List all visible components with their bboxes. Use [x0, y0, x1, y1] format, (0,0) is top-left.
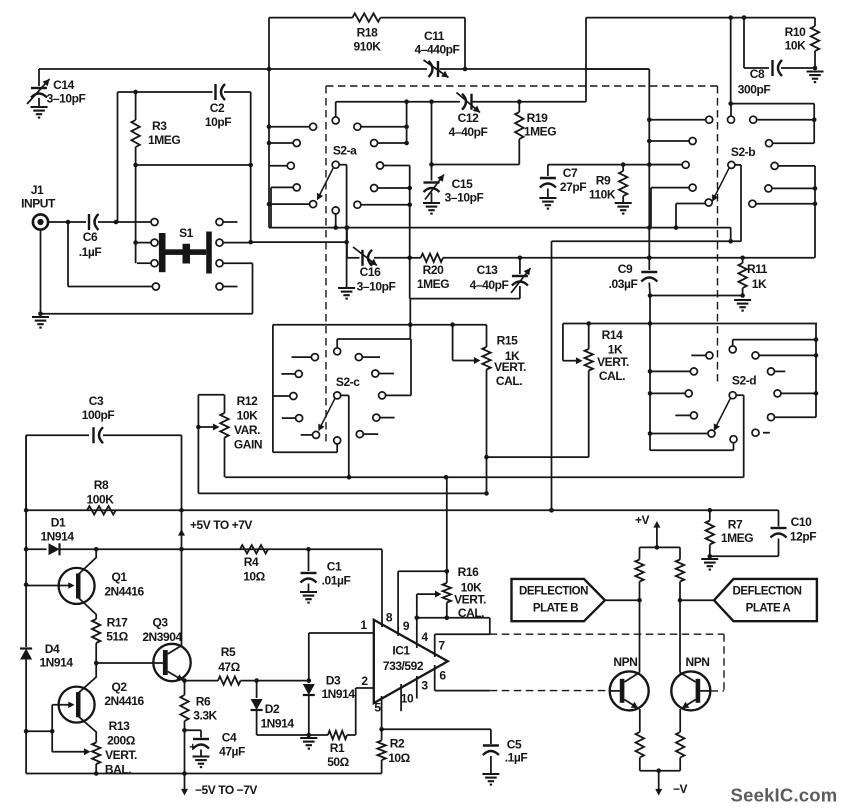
resistor R4 [240, 545, 268, 553]
svg-text:J1: J1 [31, 183, 44, 197]
S2-c left contacts [311, 354, 318, 361]
svg-text:R18: R18 [357, 26, 378, 40]
svg-text:R14: R14 [602, 328, 623, 342]
svg-text:S2-d: S2-d [732, 374, 756, 388]
wire y=457.1 R15 to R14 [487, 456, 589, 458]
wire S2-c left vertical [272, 325, 274, 453]
wire pin7 output solid [435, 633, 490, 635]
S2-b left contacts [706, 116, 713, 123]
-V arrow [658, 771, 660, 791]
svg-text:C16: C16 [360, 265, 381, 279]
svg-text:PLATE B: PLATE B [533, 603, 578, 615]
S2-a pole wire to C16 node [339, 164, 346, 166]
svg-text:R13: R13 [109, 719, 130, 733]
capacitor C5 with ground [490, 729, 492, 744]
capacitor C13 (trimmer) in loop [518, 255, 523, 260]
svg-text:1N914: 1N914 [40, 530, 74, 544]
resistor R7 with ground [709, 510, 711, 520]
wire x=586 vertical [585, 18, 587, 102]
S2-a right contacts [354, 123, 361, 130]
S2-a right contact wires lower [384, 165, 410, 167]
collector resistor right [679, 547, 681, 559]
svg-text:C5: C5 [507, 738, 522, 752]
transistor NPN right [671, 671, 710, 710]
wire box right vertical x=465 [464, 18, 466, 69]
S2-c right contact wires [362, 356, 380, 358]
wire Q3 emitter node [184, 680, 185, 682]
svg-text:Q1: Q1 [111, 570, 127, 584]
resistor R2 [381, 729, 383, 740]
svg-text:300pF: 300pF [738, 83, 771, 97]
wire S2-d right vertical x=816 [815, 324, 817, 418]
wire C3 loop [26, 434, 89, 436]
svg-text:3–10pF: 3–10pF [445, 191, 484, 205]
svg-text:S2-c: S2-c [336, 375, 360, 389]
wire y=227.6 S2-a common bus [269, 227, 731, 229]
wire J1 to S1 row1 y=222 [48, 221, 86, 223]
svg-text:1N914: 1N914 [260, 717, 294, 731]
capacitor C14 (trimmer) with ground [38, 69, 40, 86]
resistor R17 [92, 619, 100, 643]
svg-text:1K: 1K [752, 277, 767, 291]
ground at R10/C8 [813, 66, 818, 71]
wire left NPN collector [639, 600, 641, 672]
pin 5 [381, 696, 383, 729]
svg-text:R2: R2 [390, 737, 405, 751]
svg-text:S2-a: S2-a [333, 144, 357, 158]
svg-text:+5V TO +7V: +5V TO +7V [190, 518, 252, 532]
wire NPN collector resistors top [640, 546, 681, 548]
svg-text:C13: C13 [477, 263, 498, 277]
S2-a left contacts [310, 123, 317, 130]
svg-text:2N4416: 2N4416 [104, 585, 144, 599]
S2-c left contact wires [292, 356, 312, 358]
wire J1 ground chain [40, 230, 42, 314]
resistor R10 [814, 18, 816, 26]
svg-text:1MEG: 1MEG [524, 125, 556, 139]
svg-text:200Ω: 200Ω [107, 734, 136, 748]
resistor R8 on bus3 [87, 506, 116, 514]
capacitor C12 (trimmer) [470, 94, 472, 110]
wire top horizontal y=69 [39, 68, 427, 70]
wire pin 1 [309, 632, 374, 634]
wire pin6 output solid [435, 690, 490, 692]
wire R20/C13 loop bottom [409, 258, 411, 299]
svg-text:C10: C10 [791, 515, 812, 529]
pin 3 stub [416, 676, 418, 699]
wire Q2 gate link [51, 705, 53, 752]
svg-text:.03µF: .03µF [609, 277, 638, 291]
svg-text:47µF: 47µF [219, 745, 245, 759]
svg-text:1MEG: 1MEG [721, 531, 753, 545]
svg-text:IC1: IC1 [392, 644, 410, 658]
svg-text:.01µF: .01µF [322, 574, 351, 588]
capacitor C8 [771, 60, 773, 76]
wire C8 row y=68 [744, 67, 769, 69]
svg-text:S1: S1 [179, 226, 194, 240]
wire S2-d top-center y=339.6 [733, 339, 816, 341]
+5V feed arrow [178, 529, 185, 536]
svg-text:47Ω: 47Ω [218, 660, 240, 674]
wire y=17.6 right section [586, 17, 815, 19]
wire box left vertical x=269 [268, 18, 270, 228]
transistor Q1 2N4416 [59, 568, 95, 604]
svg-text:NPN: NPN [686, 655, 710, 669]
svg-text:R4: R4 [244, 555, 259, 569]
svg-text:S2-b: S2-b [731, 145, 755, 159]
S2-d top-center contact [729, 346, 736, 353]
svg-text:1MEG: 1MEG [417, 277, 449, 291]
S2-a pole arrow [318, 168, 333, 198]
svg-text:2N3904: 2N3904 [142, 630, 182, 644]
svg-text:10K: 10K [237, 409, 258, 423]
wire y=663 to Q3 base [96, 662, 153, 664]
svg-text:R3: R3 [152, 119, 167, 133]
svg-text:C4: C4 [222, 731, 237, 745]
diode D4 1N914 [20, 649, 32, 660]
resistor R3 [135, 92, 137, 120]
wire R14/S2-d top y=323.5 [563, 323, 817, 325]
wire bottom rail y=773.5 (-5V) [26, 773, 382, 775]
wire S1 row2 bus y=242.1 [251, 241, 347, 243]
dashed gang line left x=326 [325, 86, 327, 443]
svg-text:2: 2 [361, 674, 368, 688]
wire y=92 R3/C2 top [118, 91, 213, 93]
svg-text:3.3K: 3.3K [193, 709, 217, 723]
svg-text:10pF: 10pF [205, 115, 231, 129]
wire S2-d bottom y=450.3 [650, 449, 734, 451]
svg-text:DEFLECTION: DEFLECTION [519, 586, 588, 598]
svg-text:PLATE A: PLATE A [746, 603, 791, 615]
svg-text:.1µF: .1µF [79, 245, 102, 259]
wire C7/R9 y=164.6 [548, 164, 682, 166]
wire C15 vertical x=431.5 [429, 99, 434, 104]
wire x=730.7 jog [730, 228, 732, 242]
svg-text:10: 10 [401, 692, 414, 706]
wire bus1 y=477.2 [225, 476, 744, 478]
S2-b right contacts upper [750, 116, 757, 123]
pin 7 [434, 634, 436, 657]
S2-a right contact wires upper [361, 126, 407, 128]
svg-text:6: 6 [439, 669, 446, 683]
svg-text:1N914: 1N914 [321, 687, 355, 701]
resistor R5 [218, 676, 241, 684]
wire y=241.3 S2-b pole bus [552, 240, 742, 242]
svg-text:R8: R8 [94, 478, 109, 492]
wire x=347 riser [346, 228, 348, 258]
svg-text:2N4416: 2N4416 [104, 694, 144, 708]
jack J1 INPUT [33, 214, 48, 229]
wire x=68 to S1 row4 [67, 222, 69, 287]
wire plate A to node [680, 599, 714, 601]
-5V arrow [184, 774, 186, 792]
dashed gang line right x=717.5 [717, 86, 719, 386]
wire left vertical x=26.1 [25, 435, 27, 647]
svg-text:+: + [189, 740, 196, 754]
svg-text:910K: 910K [354, 40, 382, 54]
pin 4 [416, 618, 418, 648]
capacitor C7 with ground [547, 165, 549, 176]
deflection plate A callout [714, 579, 817, 621]
svg-text:5: 5 [374, 701, 381, 715]
svg-text:R12: R12 [237, 394, 258, 408]
svg-text:VAR.: VAR. [234, 423, 260, 437]
dashed gang line top y=86 [326, 85, 718, 87]
svg-text:1: 1 [360, 618, 367, 632]
wire bus3 y=510.3 (+V) [26, 509, 778, 511]
+V supply arrow [656, 525, 658, 548]
op-amp IC1 733/592 triangle [374, 620, 448, 703]
collector resistor left [639, 547, 641, 559]
svg-text:C8: C8 [750, 67, 765, 81]
svg-text:9: 9 [403, 619, 410, 633]
svg-text:GAIN: GAIN [234, 438, 262, 452]
S2-b right contacts lower [771, 162, 778, 169]
svg-text:C2: C2 [210, 101, 225, 115]
wire S2-c center riser x=411 [409, 325, 411, 339]
resistor R1 [309, 734, 328, 736]
S2-a bottom-center contact [332, 207, 339, 214]
svg-text:R16: R16 [458, 565, 479, 579]
transistor NPN left [610, 671, 649, 710]
svg-text:1N914: 1N914 [39, 656, 73, 670]
svg-text:R7: R7 [728, 518, 743, 532]
potentiometer R13 VERT BAL [52, 751, 85, 753]
wire S2-b left vertical x=649.3 [648, 69, 650, 258]
potentiometer R16 VERT CAL [446, 477, 448, 583]
wire right NPN collector [679, 600, 681, 672]
svg-text:−V: −V [673, 782, 688, 796]
svg-text:DEFLECTION: DEFLECTION [733, 586, 802, 598]
svg-text:CAL.: CAL. [599, 369, 625, 383]
resistor R18 [353, 13, 381, 21]
S2-b top-center contact [728, 116, 735, 123]
svg-text:NPN: NPN [613, 655, 637, 669]
svg-text:D4: D4 [45, 642, 60, 656]
wire y=103.6 [731, 103, 815, 105]
dashed pin7 line to NPN box [490, 633, 724, 635]
capacitor C15 (trimmer) with ground [424, 181, 440, 183]
S2-c pole contact and arrow [334, 392, 341, 399]
svg-text:100pF: 100pF [82, 408, 115, 422]
dashed NPN box right [723, 634, 725, 691]
emitter resistor right [676, 732, 684, 758]
svg-text:R11: R11 [747, 262, 768, 276]
svg-text:733/592: 733/592 [383, 659, 424, 673]
S2-d right contact wires [759, 354, 816, 356]
diode D1 1N914 [49, 543, 60, 555]
capacitor C2 [214, 84, 216, 100]
svg-text:4–40pF: 4–40pF [470, 278, 509, 292]
svg-text:R17: R17 [107, 616, 128, 630]
wire x=731 from top [730, 18, 732, 104]
svg-text:.1µF: .1µF [505, 751, 528, 765]
S2-d pole wire down to bus1 [736, 394, 744, 396]
svg-text:27pF: 27pF [560, 180, 586, 194]
svg-text:R15: R15 [497, 334, 518, 348]
S2-a top-center contact [332, 117, 339, 124]
svg-text:3–10pF: 3–10pF [357, 280, 396, 294]
S2-c right contacts [355, 354, 362, 361]
svg-text:R5: R5 [221, 645, 236, 659]
wire S1 row2 left stub [136, 242, 151, 244]
svg-text:BAL.: BAL. [105, 763, 131, 777]
svg-text:C11: C11 [424, 29, 445, 43]
pin 10 stub [400, 684, 402, 711]
S2-d left contacts [706, 352, 713, 359]
svg-text:R1: R1 [330, 741, 345, 755]
svg-text:D3: D3 [326, 674, 341, 688]
svg-text:VERT.: VERT. [105, 748, 137, 762]
wire y=164.5 C15/R19 [432, 164, 520, 166]
wire x=410.3 link from attenuator [409, 299, 411, 325]
wire S1 row2 right to x=250.7 [223, 242, 251, 244]
potentiometer R14 VERT CAL [562, 324, 564, 361]
S2-d pole contact and arrow [729, 392, 736, 399]
S2-b left contact wires [649, 119, 705, 121]
svg-text:Q3: Q3 [152, 616, 168, 630]
svg-text:D1: D1 [51, 516, 66, 530]
wire S2-b pole drop x=551.5 [551, 241, 553, 510]
wire S2-c top y=324.7 [273, 324, 487, 326]
svg-text:VERT.: VERT. [597, 355, 629, 369]
svg-text:51Ω: 51Ω [106, 630, 128, 644]
svg-text:110K: 110K [589, 188, 616, 202]
S2-a pole contact [332, 161, 339, 168]
resistor R19 [517, 99, 522, 104]
svg-text:3–10pF: 3–10pF [47, 92, 86, 106]
S2-c bottom-center contact [334, 437, 341, 444]
potentiometer R15 VERT CAL [452, 325, 454, 361]
ground at J1 [32, 317, 49, 328]
wire pin 2 [356, 687, 374, 689]
svg-text:SeekIC.com: SeekIC.com [731, 785, 838, 806]
emitter resistor left [636, 732, 644, 758]
wire S1 row4 right stub [223, 286, 238, 288]
svg-text:C9: C9 [618, 262, 633, 276]
capacitor C3 [92, 427, 94, 443]
svg-text:C7: C7 [563, 166, 578, 180]
S1 right contacts [216, 219, 223, 226]
wire S2-d left vertical x=650 [649, 296, 651, 451]
capacitor C16 (trimmer) with ground [347, 257, 360, 259]
transistor Q3 2N3904 [153, 644, 190, 681]
wire y=165 R3 bottom [136, 164, 251, 166]
svg-text:Q2: Q2 [111, 680, 127, 694]
wire S1 row3 left stub [137, 262, 151, 264]
svg-text:10Ω: 10Ω [243, 570, 265, 584]
wire vertical x=117.5 (input to C2/R3 loop) [117, 92, 119, 222]
svg-text:12pF: 12pF [790, 530, 816, 544]
wire R16 bottom to pin7 wire [417, 617, 490, 619]
svg-text:10K: 10K [785, 39, 806, 53]
svg-text:R19: R19 [527, 111, 548, 125]
wire bus2 y=493.4 [198, 492, 486, 494]
svg-text:−5V TO −7V: −5V TO −7V [195, 783, 257, 797]
svg-text:C3: C3 [89, 394, 104, 408]
svg-text:C1: C1 [327, 560, 342, 574]
svg-text:VERT.: VERT. [494, 360, 526, 374]
svg-text:INPUT: INPUT [21, 197, 56, 211]
svg-text:10Ω: 10Ω [388, 751, 410, 765]
S1 bars [159, 233, 166, 272]
capacitor C4 47uF with ground [185, 729, 202, 731]
wire y=313.7 to S1 row3 [41, 313, 253, 315]
svg-text:C6: C6 [83, 230, 98, 244]
capacitor C11 (trimmer) on y=69 [437, 61, 439, 77]
wire x=744 down to C8 [743, 18, 745, 68]
wire plate B to node [605, 599, 640, 601]
svg-text:4: 4 [421, 630, 428, 644]
wire pin5 to C5 [382, 728, 491, 730]
wire y=101.7 from S2-a to x=586 [336, 101, 460, 103]
wire vertical x=250.7 (C2 right) [250, 92, 252, 242]
S2-d left contact wires [691, 354, 706, 356]
svg-text:C15: C15 [452, 177, 473, 191]
svg-text:C14: C14 [53, 78, 74, 92]
svg-text:8: 8 [386, 611, 393, 625]
S2-b selected contact [705, 199, 712, 206]
capacitor C1 with ground [308, 549, 310, 571]
resistor R6 [180, 695, 188, 721]
transistor Q2 2N4416 [59, 687, 95, 723]
deflection plate B callout [512, 579, 605, 621]
wire x=815 to attenuator output [814, 166, 816, 258]
resistor R20 [407, 255, 412, 260]
svg-text:1MEG: 1MEG [148, 133, 180, 147]
svg-text:VERT.: VERT. [454, 593, 486, 607]
pin 6 [434, 665, 436, 691]
wire attenuator output y=257.8 to right [520, 257, 815, 259]
svg-text:CAL.: CAL. [496, 374, 522, 388]
capacitor C6 [88, 214, 90, 230]
wire +5V rail y=549.3 [26, 548, 46, 550]
svg-text:4–40pF: 4–40pF [449, 125, 488, 139]
svg-text:50Ω: 50Ω [327, 755, 349, 769]
potentiometer R12 VAR GAIN [198, 394, 224, 396]
svg-text:D2: D2 [265, 702, 280, 716]
S2-c top-center contact [334, 348, 341, 355]
dashed pin6 line to NPN base [490, 690, 610, 692]
diode D2 1N914 [256, 681, 258, 698]
diode D3 1N914 with ground [308, 681, 310, 683]
capacitor C10 [778, 510, 780, 526]
svg-text:R10: R10 [785, 25, 806, 39]
S2-b pole contact and arrow [728, 161, 735, 168]
wire S1 row1 right stub [223, 221, 238, 223]
svg-text:R6: R6 [196, 695, 211, 709]
svg-text:R20: R20 [423, 263, 444, 277]
pin 9 [397, 571, 399, 636]
wire y=295.5 C9 to R11 [650, 295, 743, 297]
wire pin8 riser x=382 [381, 549, 383, 627]
S2-a left contact wires [267, 124, 272, 129]
svg-text:C12: C12 [458, 111, 479, 125]
capacitor C9 [647, 255, 652, 260]
wire emitter bottom (-V) [640, 770, 680, 772]
wire S2-c bottom y=452.3 [273, 451, 337, 453]
S2-d bottom-center contact [730, 436, 737, 443]
svg-text:4–440pF: 4–440pF [415, 43, 460, 57]
resistor R11 with ground [740, 255, 745, 260]
svg-text:7: 7 [438, 639, 445, 653]
svg-text:+V: +V [635, 513, 650, 527]
svg-text:100K: 100K [87, 493, 115, 507]
svg-text:R9: R9 [596, 174, 611, 188]
S2-c pole wire down to bus [341, 394, 349, 396]
resistor R9 with ground [621, 162, 626, 167]
wire R18 box top y=17.6 [269, 17, 353, 19]
